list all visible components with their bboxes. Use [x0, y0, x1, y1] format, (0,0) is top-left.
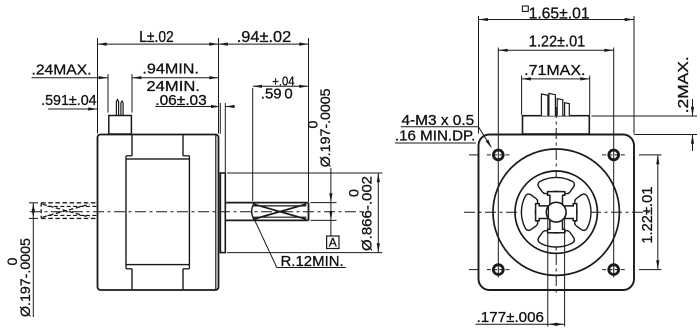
dimension square 1.65±.01	[478, 16, 480, 134]
centerline right view vertical	[555, 107, 557, 294]
connector front view	[523, 116, 590, 134]
leader to mounting hole	[478, 127, 490, 147]
mounting holes 4-M3	[493, 150, 503, 160]
dimension .177±.006 shaft flat	[547, 219, 549, 327]
motor front face square	[479, 135, 635, 291]
front flange joint line	[215, 135, 217, 289]
stator stack face	[126, 159, 189, 265]
pilot boss side view	[220, 173, 225, 253]
shaft flat chord	[547, 206, 549, 218]
mounting hole tick outside left	[469, 154, 479, 156]
svg-text:Ø.197-.0005: Ø.197-.0005	[18, 238, 34, 317]
hub cross	[536, 192, 577, 233]
dimension Ø.866 pilot diameter	[227, 172, 382, 174]
datum flag A	[327, 236, 339, 249]
svg-text:L±.02: L±.02	[139, 29, 174, 46]
motor body side view outline	[98, 135, 219, 291]
svg-text:A: A	[329, 235, 337, 249]
dimension L±.02	[97, 38, 99, 134]
svg-text:.2MAX.: .2MAX.	[675, 56, 692, 113]
leader R.12MIN flat radius	[253, 217, 277, 268]
dimension .94MIN / 24MIN	[132, 77, 219, 79]
dimension Ø.197 rear shaft diameter	[29, 202, 38, 204]
svg-text:+.04: +.04	[272, 74, 294, 89]
rear shaft hidden lines	[41, 202, 97, 204]
dimension 1.22±.01 vertical	[639, 154, 662, 156]
dimension .2MAX connector height	[592, 115, 698, 117]
end bell circle	[493, 149, 619, 275]
shaft flat cross	[254, 204, 307, 219]
svg-text:1.65±.01: 1.65±.01	[529, 5, 590, 22]
dimension .94±.02 shaft length	[308, 38, 310, 202]
dimension 1.22±.01 horizontal	[498, 49, 613, 51]
svg-text:.24MAX.: .24MAX.	[32, 62, 92, 79]
mounting hole centerlines vertical	[497, 48, 499, 278]
connector pins side view	[116, 100, 118, 116]
svg-text:.71MAX.: .71MAX.	[524, 62, 585, 79]
svg-text:R.12MIN.: R.12MIN.	[281, 253, 344, 270]
svg-text:.94MIN.: .94MIN.	[142, 60, 199, 77]
centerline right view horizontal	[464, 211, 650, 213]
connector side view	[109, 116, 132, 135]
svg-text:.94±.02: .94±.02	[237, 29, 292, 46]
shaft flat runout arc	[252, 203, 254, 219]
svg-text:0: 0	[347, 189, 363, 197]
svg-text:.177±.006: .177±.006	[477, 309, 544, 326]
dimension Ø.197 shaft diameter front	[311, 202, 337, 204]
svg-text:1.22±.01: 1.22±.01	[639, 187, 656, 244]
svg-text:0: 0	[5, 258, 21, 266]
svg-text:0: 0	[306, 121, 322, 129]
dimension .59 +.04/0 flat length	[252, 88, 254, 201]
pilot boss circle	[515, 171, 597, 253]
svg-text:.16 MIN.DP.: .16 MIN.DP.	[395, 127, 476, 144]
svg-text:.591±.04: .591±.04	[41, 92, 97, 109]
rotor slots	[575, 194, 591, 230]
shaft side view	[225, 202, 308, 204]
connector pins front view	[541, 94, 548, 116]
svg-text:Ø.866-.002: Ø.866-.002	[360, 176, 376, 251]
dimension .71MAX connector	[521, 76, 523, 115]
centerline left view	[30, 211, 366, 213]
shaft circle front view	[546, 202, 566, 222]
stator stack recess bottom	[125, 265, 127, 269]
stator stack recess top	[131, 135, 133, 156]
svg-text:1.22±.01: 1.22±.01	[529, 34, 586, 51]
shaft flat lines	[254, 205, 307, 207]
